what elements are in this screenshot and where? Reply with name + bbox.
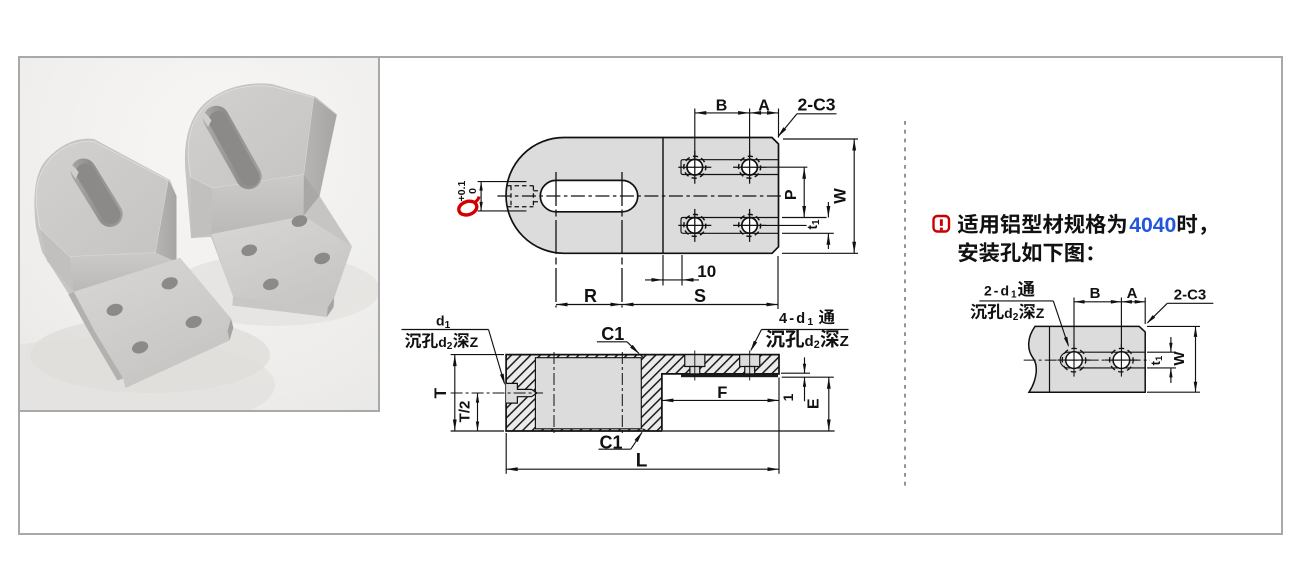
svg-text:2-C3: 2-C3 [798,94,836,114]
svg-text:d: d [438,334,447,350]
svg-text:t1: t1 [805,219,822,230]
dimension T/2 line [476,393,479,431]
dimension 10 line [645,255,699,286]
side view: slot chamfer edges C1 [640,355,647,431]
svg-text:2-C3: 2-C3 [1174,287,1207,304]
small view: t1 dimension [1147,337,1176,383]
photo box border [19,57,379,411]
small view: B and A dimension lines [1074,298,1145,348]
note line 2 CJK [959,242,978,262]
svg-text:d: d [805,333,814,350]
leader for 4-d1 holes [749,330,849,353]
small view: inner edge line [1049,326,1051,392]
side view: cavity outline [535,358,641,429]
top view: counterbored hole 3 [678,209,711,242]
dimension T line [451,355,504,431]
chamfer C1 upper leader [597,342,641,356]
dimension L line [506,378,779,474]
small view: part body with break line [1029,326,1146,392]
svg-text:W: W [832,188,850,204]
top view: part body outline with chamfered right corners [506,138,778,254]
top view: slot (oblong hole) [540,180,637,211]
svg-text:T: T [431,387,450,398]
svg-text:A: A [758,97,770,114]
svg-text:L: L [636,451,648,472]
svg-text:B: B [716,97,728,114]
svg-text:Z: Z [470,334,479,350]
dimension 1 line [781,357,810,401]
top view: counterbored hole 4 [733,209,766,242]
chamfer C1 lower leader [599,430,645,449]
svg-text:t1: t1 [1148,355,1165,365]
red attention icon [934,216,950,232]
dimension P line [766,167,827,225]
top view: slot right end centerline / R-S extension [621,172,623,308]
note line 1 CJK part B [1178,214,1197,234]
svg-text:C1: C1 [601,324,624,344]
top view: horizontal centerline [497,195,784,197]
side view: slot cavity fill [535,358,641,429]
svg-text:W: W [1171,351,1188,366]
svg-text:d: d [1004,305,1013,321]
svg-text:C1: C1 [599,433,622,453]
dimension E line [663,377,835,431]
dimension B extension and line [695,109,779,160]
red highlight circle annotation [457,197,479,218]
svg-text:4-d1: 4-d1 [779,311,815,328]
leader for d1 side hole [402,330,507,386]
small view: label 2-d1通 [984,281,1035,301]
tolerance text +0.1/0 [456,180,479,201]
side view: slot end centerlines [554,352,622,435]
chamfer callout 2-C3 leader [776,114,836,139]
small view: hole 1 [1058,344,1091,377]
side view: hatched section body [506,355,779,431]
svg-text:2: 2 [814,339,820,351]
top view: counterbored hole 1 [678,151,711,184]
small view: 2-d1 leader [979,301,1070,348]
photo of two L-brackets [0,58,380,433]
top view: slot left end centerline / R extension [555,172,557,308]
small view: hole 2 [1105,344,1138,377]
small view: groove band [1060,352,1145,368]
dashed separator line [904,121,906,490]
svg-text:P: P [783,189,800,200]
dimension F line [662,399,779,403]
svg-text:A: A [1127,285,1138,302]
top view: hidden side counterbore (dashed) [507,186,542,207]
svg-text:B: B [1090,285,1101,302]
svg-text:1: 1 [780,393,796,401]
small view: label 沉孔d2深Z [971,304,1045,323]
svg-text:R: R [584,286,597,306]
svg-text:4040: 4040 [1129,214,1176,237]
svg-text:Z: Z [840,333,849,350]
svg-text:2: 2 [447,341,453,352]
label 沉孔d2深Z (flange counterbore) [766,330,849,352]
svg-text:2-d1: 2-d1 [984,282,1019,300]
top view: groove outline row 2 [681,218,779,234]
dimension t1 line [782,202,834,249]
side hole diameter dimension with tolerance [478,182,527,211]
svg-text:2: 2 [1013,312,1019,323]
dimension R and S lines [556,256,778,309]
top view: bend line [662,138,664,253]
note line 1 CJK part A [958,214,978,234]
small view: W dimension [1147,326,1200,392]
side view: side hole centerline [451,392,543,394]
side view: flange counterbored hole 2 [740,351,760,381]
small view: 2-C3 leader [1145,303,1213,325]
top view: counterbored hole 2 [733,151,766,184]
side view: 1mm locating protrusion [681,374,778,377]
svg-text:E: E [806,398,823,409]
small view: centerline [1024,359,1150,361]
svg-text:T/2: T/2 [457,401,474,423]
label 4-d1通 (4 through holes) [779,309,835,328]
svg-text:d1: d1 [436,313,451,331]
top view: groove outline row 1 [681,160,779,175]
svg-text:F: F [717,384,727,402]
svg-text:0: 0 [467,188,479,194]
svg-text:S: S [694,286,706,306]
dimension W line [782,139,858,253]
side view: outer outline [506,355,779,431]
label 沉孔d2深Z (side hole counterbore) [405,333,479,352]
svg-text:10: 10 [697,262,716,281]
svg-text:Z: Z [1036,305,1045,321]
side view: flange counterbored hole 1 [685,351,705,381]
side view: side counterbored hole section [506,383,537,403]
